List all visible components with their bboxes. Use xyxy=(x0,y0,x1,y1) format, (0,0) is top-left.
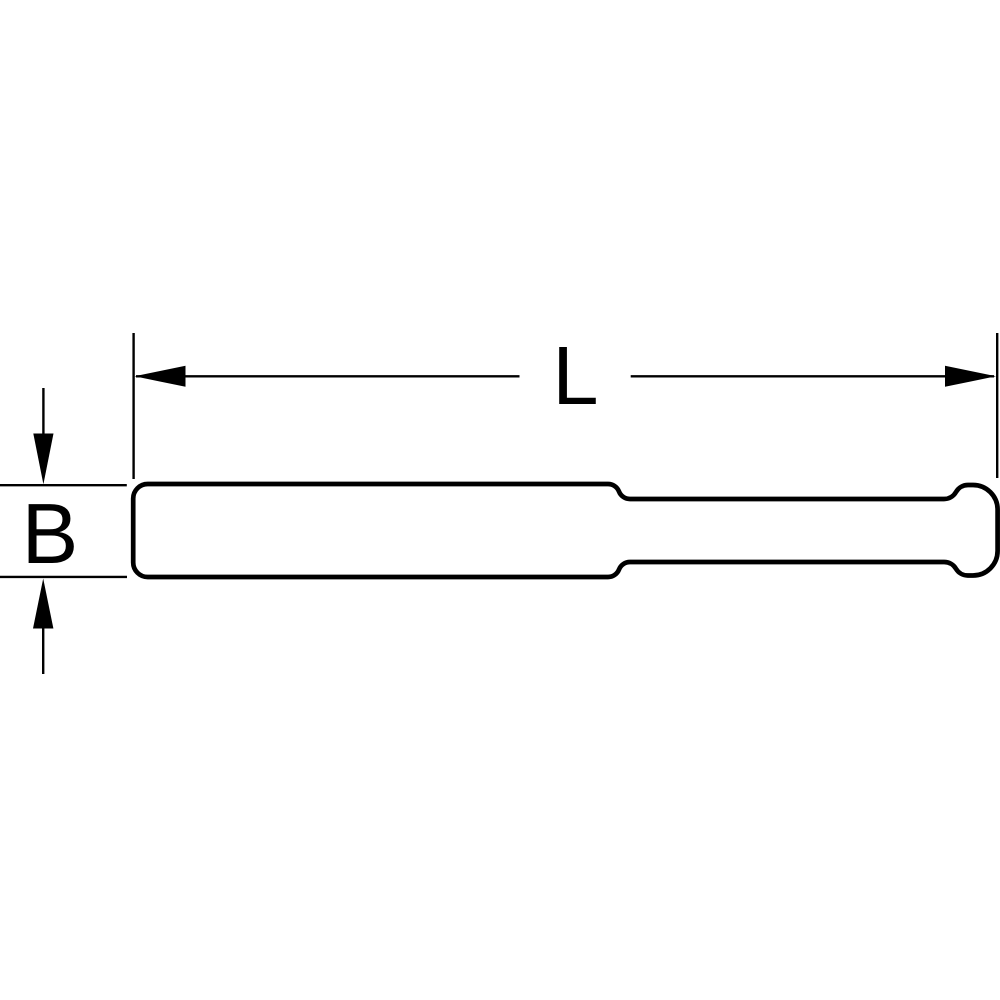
tool body outline (drift punch side view) xyxy=(133,484,997,577)
L extension line left xyxy=(132,333,134,479)
B down arrow line xyxy=(42,388,44,438)
B up arrow line xyxy=(42,624,44,674)
L extension line right xyxy=(996,333,998,478)
B up arrowhead xyxy=(33,579,53,629)
B extension line bottom xyxy=(0,576,127,578)
L left arrowhead xyxy=(135,366,186,387)
B down arrowhead xyxy=(33,434,53,485)
L dimension line left segment xyxy=(136,375,520,377)
L right arrowhead xyxy=(945,366,996,387)
L dimension line right segment xyxy=(631,375,994,377)
B extension line top xyxy=(0,484,127,486)
svg-text:B: B xyxy=(22,487,79,582)
svg-text:L: L xyxy=(552,329,598,422)
